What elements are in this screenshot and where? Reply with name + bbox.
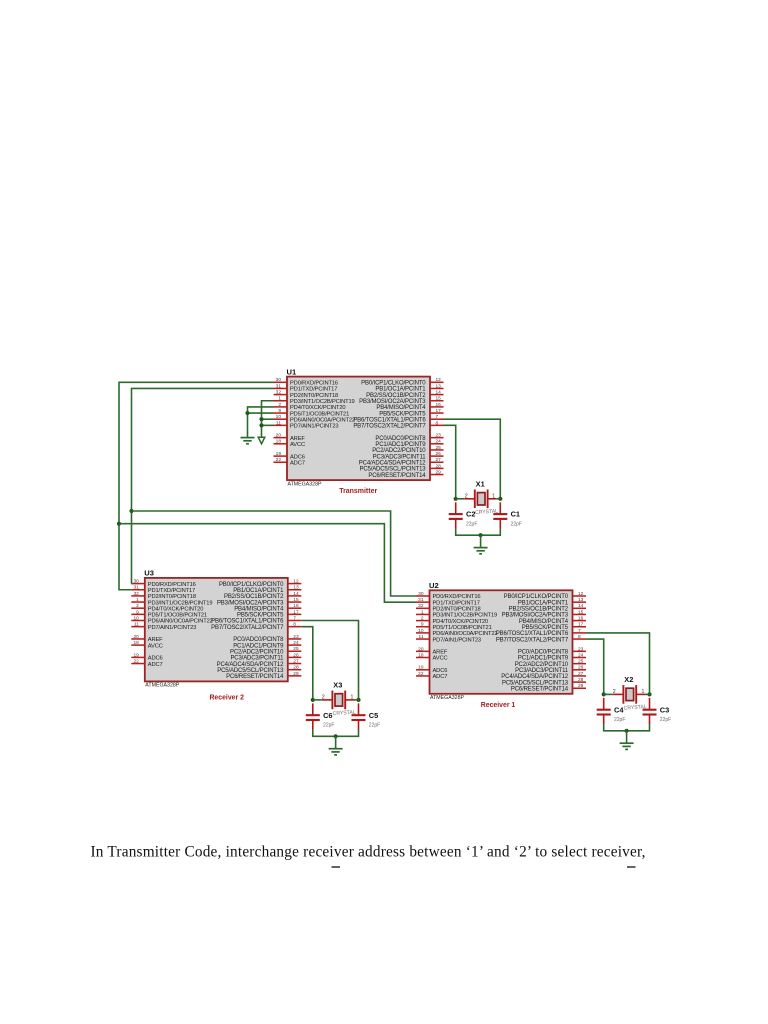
U1 pin 17 (PB5/SCK/PCINT5) (379, 408, 443, 417)
U3 pin 18 (AVCC) (131, 640, 162, 649)
svg-text:PB3/MOSI/OC2A/PCINT3: PB3/MOSI/OC2A/PCINT3 (502, 613, 569, 619)
svg-text:C5: C5 (369, 711, 378, 720)
svg-text:29: 29 (436, 469, 442, 475)
svg-text:7: 7 (436, 414, 439, 420)
svg-text:PB4/MISO/PCINT4: PB4/MISO/PCINT4 (376, 405, 426, 411)
svg-text:18: 18 (276, 439, 282, 445)
svg-text:7: 7 (293, 615, 296, 621)
svg-text:15: 15 (578, 609, 584, 615)
svg-text:C4: C4 (614, 705, 624, 714)
svg-text:19: 19 (276, 451, 282, 457)
svg-text:AREF: AREF (433, 650, 448, 656)
junction at X2 ground rail center (625, 729, 629, 733)
svg-text:31: 31 (133, 585, 139, 591)
U3 pin 8 (PB7/TOSC2/XTAL2/PCINT7) (211, 622, 301, 631)
U1 pin 14 (PB2/SS/OC1B/PCINT2) (366, 390, 443, 399)
junction X2 pin2 / C4 (602, 692, 606, 696)
U1 pin 27 (PC4/ADC4/SDA/PCINT12) (359, 457, 444, 466)
U2 pin 13 (PB1/OC1A/PCINT1) (518, 597, 586, 606)
U3 value label "Receiver 2" (209, 693, 244, 702)
svg-text:20: 20 (133, 634, 139, 640)
svg-text:PD6/AIN0/OC0A/PCINT22: PD6/AIN0/OC0A/PCINT22 (148, 619, 213, 625)
svg-text:PC4/ADC4/SDA/PCINT12: PC4/ADC4/SDA/PCINT12 (359, 460, 427, 466)
X3 pin 2 number (322, 694, 325, 700)
svg-text:13: 13 (578, 597, 584, 603)
wire: X3 cluster ground rail (313, 730, 359, 737)
svg-text:ADC7: ADC7 (290, 460, 305, 466)
svg-text:C1: C1 (511, 510, 520, 519)
svg-text:PB4/MISO/PCINT4: PB4/MISO/PCINT4 (519, 619, 569, 625)
microcontroller U2 (ATMEGA328P) body (430, 590, 573, 694)
svg-text:25: 25 (578, 659, 584, 665)
svg-text:28: 28 (293, 665, 299, 671)
svg-text:C3: C3 (660, 705, 669, 714)
svg-text:1: 1 (641, 689, 644, 695)
U1 pin 8 (PB7/TOSC2/XTAL2/PCINT7) (353, 420, 443, 429)
svg-text:U2: U2 (429, 581, 439, 590)
U2 pin 32 (PD2/INT0/PCINT18) (416, 603, 481, 612)
U1 pin 23 (PC0/ADC0/PCINT8) (375, 433, 443, 442)
wire: U2 pin8 XTAL2 to X2 pin2 (586, 639, 604, 694)
ground symbol (below X1) (474, 548, 488, 554)
svg-text:PB3/MOSI/OC2A/PCINT3: PB3/MOSI/OC2A/PCINT3 (359, 399, 426, 405)
svg-text:23: 23 (578, 646, 584, 652)
U1 pin 26 (PC3/ADC3/PCINT11) (373, 451, 444, 460)
svg-text:U3: U3 (144, 569, 154, 578)
svg-text:PD5/T1/OC0B/PCINT21: PD5/T1/OC0B/PCINT21 (433, 625, 492, 631)
U2 pin 15 (PB3/MOSI/OC2A/PCINT3) (502, 609, 586, 618)
U2 pin 23 (PC0/ADC0/PCINT8) (518, 646, 586, 655)
svg-text:PB0/ICP1/CLKO/PCINT0: PB0/ICP1/CLKO/PCINT0 (504, 594, 569, 600)
svg-text:PC6/RESET/PCINT14: PC6/RESET/PCINT14 (511, 686, 569, 692)
svg-text:X2: X2 (624, 675, 633, 684)
junction X3 pin2 / C6 (311, 698, 315, 702)
svg-text:PB6/TOSC1/XTAL1/PCINT6: PB6/TOSC1/XTAL1/PCINT6 (211, 619, 284, 625)
junction X1 pin1 / C1 (498, 497, 502, 501)
microcontroller U3 (ATMEGA328P) body (145, 578, 288, 682)
svg-text:16: 16 (436, 402, 442, 408)
svg-text:22pF: 22pF (369, 722, 380, 728)
small dash mark 2 (627, 866, 636, 867)
svg-text:ATMEGA328P: ATMEGA328P (145, 683, 180, 689)
U1 pin 31 (PD1/TXD/PCINT17) (274, 383, 338, 392)
svg-text:PC2/ADC2/PCINT10: PC2/ADC2/PCINT10 (515, 662, 569, 668)
U2 pin 12 (PB0/ICP1/CLKO/PCINT0) (504, 591, 586, 600)
svg-text:ADC6: ADC6 (290, 454, 305, 460)
svg-text:16: 16 (293, 603, 299, 609)
svg-text:PB5/SCK/PCINT5: PB5/SCK/PCINT5 (379, 411, 426, 417)
svg-text:14: 14 (578, 603, 584, 609)
svg-text:30: 30 (276, 377, 282, 383)
wire segment: U1 pin9 PD5 to vertical (248, 412, 274, 414)
svg-text:PB0/ICP1/CLKO/PCINT0: PB0/ICP1/CLKO/PCINT0 (361, 381, 426, 387)
svg-text:26: 26 (578, 665, 584, 671)
U2 pin 20 (AREF) (416, 646, 448, 655)
U2 pin 11 (PD7/AIN1/PCINT23) (416, 634, 481, 643)
svg-text:PC3/ADC3/PCINT11: PC3/ADC3/PCINT11 (230, 656, 284, 662)
U1 pin 10 (PD6/AIN0/OC0A/PCINT22) (274, 414, 355, 423)
junction X1 pin2 / C2 (454, 497, 458, 501)
svg-text:25: 25 (293, 646, 299, 652)
svg-text:1: 1 (350, 694, 353, 700)
svg-text:Receiver 2: Receiver 2 (209, 693, 244, 702)
X2 reference label (624, 675, 633, 684)
U3 pin 24 (PC1/ADC1/PCINT9) (233, 640, 301, 649)
U3 part name label ATMEGA328P (145, 683, 180, 689)
svg-text:15: 15 (436, 396, 442, 402)
U3 pin 23 (PC0/ADC0/PCINT8) (233, 634, 301, 643)
U3 reference designator label (144, 569, 154, 578)
wire: U2 pin7 XTAL1 to X2 pin1 (586, 633, 650, 695)
svg-text:20: 20 (418, 646, 424, 652)
svg-text:8: 8 (436, 420, 439, 426)
U3 pin 22 (ADC7) (131, 658, 162, 667)
svg-text:18: 18 (418, 652, 424, 658)
svg-text:29: 29 (578, 683, 584, 689)
junction on RXD1 net (branch to U2 TXD) (117, 522, 121, 526)
svg-text:X1: X1 (476, 480, 485, 489)
svg-text:1: 1 (136, 597, 139, 603)
U2 pin 26 (PC3/ADC3/PCINT11) (515, 665, 586, 674)
U1 pin 9 (PD5/T1/OC0B/PCINT21) (274, 408, 350, 417)
svg-text:AREF: AREF (148, 637, 163, 643)
U1 pin 7 (PB6/TOSC1/XTAL1/PCINT6) (353, 414, 443, 423)
svg-text:PD3/INT1/OC2B/PCINT19: PD3/INT1/OC2B/PCINT19 (148, 600, 213, 606)
U3 pin 2 (PD4/T0/XCK/PCINT20) (131, 603, 203, 612)
svg-text:22: 22 (133, 658, 139, 664)
U2 pin 14 (PB2/SS/OC1B/PCINT2) (509, 603, 586, 612)
wire segment: TXD1 branch to U2 pin30 RXD (132, 511, 417, 596)
svg-text:PB7/TOSC2/XTAL2/PCINT7: PB7/TOSC2/XTAL2/PCINT7 (496, 637, 569, 643)
svg-text:27: 27 (293, 658, 299, 664)
U3 pin 16 (PB4/MISO/PCINT4) (234, 603, 301, 612)
svg-text:PC0/ADC0/PCINT8: PC0/ADC0/PCINT8 (375, 436, 426, 442)
microcontroller U1 (ATMEGA328P) body (287, 377, 430, 481)
svg-text:22pF: 22pF (614, 717, 625, 723)
svg-text:10: 10 (418, 628, 424, 634)
svg-text:C6: C6 (323, 711, 332, 720)
svg-text:13: 13 (293, 585, 299, 591)
wire: U1 pin8 XTAL2 to X1 pin2 (444, 425, 456, 498)
U2 pin 17 (PB5/SCK/PCINT5) (522, 622, 586, 631)
U2 pin 25 (PC2/ADC2/PCINT10) (515, 659, 586, 668)
svg-text:17: 17 (578, 622, 584, 628)
U1 pin 29 (PC6/RESET/PCINT14) (368, 469, 443, 478)
capacitor C1 22pF (493, 502, 522, 529)
U3 pin 30 (PD0/RXD/PCINT16) (131, 579, 195, 588)
svg-text:PC2/ADC2/PCINT10: PC2/ADC2/PCINT10 (230, 649, 284, 655)
U2 pin 19 (ADC6) (416, 665, 447, 674)
X3 value label CRYSTAL (333, 710, 356, 718)
svg-text:PB2/SS/OC1B/PCINT2: PB2/SS/OC1B/PCINT2 (509, 607, 569, 613)
svg-text:22pF: 22pF (323, 722, 334, 728)
svg-text:27: 27 (578, 671, 584, 677)
junction at X1 ground rail center (479, 533, 483, 537)
svg-text:PD5/T1/OC0B/PCINT21: PD5/T1/OC0B/PCINT21 (148, 613, 207, 619)
U3 pin 15 (PB3/MOSI/OC2A/PCINT3) (217, 597, 301, 606)
wire segment: RXD1 branch to U2 pin31 TXD (119, 524, 416, 602)
svg-text:PD1/TXD/PCINT17: PD1/TXD/PCINT17 (148, 588, 195, 594)
svg-text:ADC7: ADC7 (433, 674, 448, 680)
capacitor C4 22pF (597, 698, 626, 725)
svg-text:8: 8 (578, 634, 581, 640)
wire net RXD1: U1 pin30 PD0/RXD to U3 pin31 TXD (119, 382, 274, 589)
crystal X1 (456, 490, 501, 509)
svg-text:ATMEGA328P: ATMEGA328P (288, 481, 323, 487)
U3 pin 28 (PC5/ADC5/SCL/PCINT13) (217, 665, 301, 674)
U2 pin 1 (PD3/INT1/OC2B/PCINT19) (416, 609, 497, 618)
U1 pin 19 (ADC6) (274, 451, 305, 460)
crystal X3 (313, 691, 359, 710)
capacitor C3 22pF (643, 698, 672, 725)
U3 pin 17 (PB5/SCK/PCINT5) (237, 609, 301, 618)
svg-text:PB2/SS/OC1B/PCINT2: PB2/SS/OC1B/PCINT2 (366, 393, 426, 399)
svg-text:11: 11 (419, 634, 424, 640)
svg-text:15: 15 (293, 597, 299, 603)
svg-text:14: 14 (436, 390, 442, 396)
svg-text:30: 30 (133, 579, 139, 585)
svg-text:PD2/INT0/PCINT18: PD2/INT0/PCINT18 (290, 393, 338, 399)
svg-text:PB5/SCK/PCINT5: PB5/SCK/PCINT5 (237, 613, 284, 619)
U2 pin 18 (AVCC) (416, 652, 447, 661)
svg-text:9: 9 (278, 408, 281, 414)
wire: U3 pin8 XTAL2 to X3 pin2 (301, 627, 313, 700)
U3 pin 9 (PD5/T1/OC0B/PCINT21) (131, 609, 207, 618)
U1 pin 11 (PD7/AIN1/PCINT23) (274, 420, 339, 429)
U3 pin 32 (PD2/INT0/PCINT18) (131, 591, 196, 600)
svg-text:28: 28 (436, 463, 442, 469)
svg-text:PD0/RXD/PCINT16: PD0/RXD/PCINT16 (148, 582, 196, 588)
svg-text:ADC7: ADC7 (148, 662, 163, 668)
U1 part name label ATMEGA328P (288, 481, 323, 487)
wire: X2 cluster ground rail (604, 724, 650, 731)
svg-text:29: 29 (293, 671, 299, 677)
U2 pin 16 (PB4/MISO/PCINT4) (519, 616, 586, 625)
svg-text:12: 12 (293, 579, 299, 585)
svg-text:31: 31 (276, 383, 282, 389)
U2 pin 9 (PD5/T1/OC0B/PCINT21) (416, 622, 492, 631)
U3 pin 26 (PC3/ADC3/PCINT11) (230, 652, 301, 661)
svg-text:2: 2 (465, 493, 468, 499)
U2 pin 24 (PC1/ADC1/PCINT9) (518, 652, 586, 661)
svg-text:PD4/T0/XCK/PCINT20: PD4/T0/XCK/PCINT20 (290, 405, 345, 411)
svg-text:PD6/AIN0/OC0A/PCINT22: PD6/AIN0/OC0A/PCINT22 (433, 631, 498, 637)
svg-text:PB4/MISO/PCINT4: PB4/MISO/PCINT4 (234, 606, 284, 612)
U1 pin 2 (PD4/T0/XCK/PCINT20) (274, 402, 346, 411)
svg-text:ADC6: ADC6 (433, 668, 448, 674)
junction at X3 ground rail center (334, 734, 338, 738)
junction PD3/PD6 (259, 417, 263, 421)
U3 pin 10 (PD6/AIN0/OC0A/PCINT22) (131, 615, 212, 624)
svg-text:26: 26 (293, 652, 299, 658)
svg-text:PD1/TXD/PCINT17: PD1/TXD/PCINT17 (433, 600, 480, 606)
svg-text:PD3/INT1/OC2B/PCINT19: PD3/INT1/OC2B/PCINT19 (433, 613, 498, 619)
capacitor C6 22pF (306, 703, 335, 730)
crystal X2 (604, 685, 650, 704)
svg-text:17: 17 (293, 609, 299, 615)
U1 pin 28 (PC5/ADC5/SCL/PCINT13) (359, 463, 443, 472)
svg-text:PB1/OC1A/PCINT1: PB1/OC1A/PCINT1 (518, 600, 569, 606)
svg-text:24: 24 (293, 640, 299, 646)
svg-text:PC1/ADC1/PCINT9: PC1/ADC1/PCINT9 (375, 442, 426, 448)
svg-text:1: 1 (278, 396, 281, 402)
X1 value label CRYSTAL (475, 509, 498, 517)
svg-text:10: 10 (276, 414, 282, 420)
U1 pin 24 (PC1/ADC1/PCINT9) (375, 439, 443, 448)
small dash mark 1 (332, 866, 341, 867)
svg-text:AVCC: AVCC (290, 442, 305, 448)
svg-text:PB6/TOSC1/XTAL1/PCINT6: PB6/TOSC1/XTAL1/PCINT6 (496, 631, 569, 637)
U2 pin 8 (PB7/TOSC2/XTAL2/PCINT7) (496, 634, 586, 643)
U3 pin 7 (PB6/TOSC1/XTAL1/PCINT6) (211, 615, 301, 624)
svg-text:2: 2 (136, 603, 139, 609)
svg-text:2: 2 (421, 616, 424, 622)
svg-text:PB7/TOSC2/XTAL2/PCINT7: PB7/TOSC2/XTAL2/PCINT7 (211, 625, 284, 631)
svg-text:11: 11 (276, 420, 281, 426)
svg-text:PD7/AIN1/PCINT23: PD7/AIN1/PCINT23 (433, 637, 481, 643)
svg-text:32: 32 (276, 390, 282, 396)
svg-text:9: 9 (421, 622, 424, 628)
svg-text:PD7/AIN1/PCINT23: PD7/AIN1/PCINT23 (290, 424, 338, 430)
X1 pin 2 number (465, 493, 468, 499)
svg-text:PC4/ADC4/SDA/PCINT12: PC4/ADC4/SDA/PCINT12 (217, 662, 285, 668)
U1 pin 18 (AVCC) (274, 439, 305, 448)
X1 pin 1 number (492, 493, 495, 499)
svg-text:Transmitter: Transmitter (339, 486, 377, 495)
junction X3 pin1 / C5 (356, 698, 360, 702)
caption text line (91, 844, 646, 861)
ground symbol (U1 PD4/PD5 net) (241, 438, 255, 444)
U1 pin 25 (PC2/ADC2/PCINT10) (372, 445, 443, 454)
wire net TXD1: U1 pin31 PD1/TXD to U3 pin30 RXD (131, 388, 273, 583)
wire: rail to ground symbol 1 (480, 535, 482, 547)
svg-text:23: 23 (293, 634, 299, 640)
capacitor C2 22pF (449, 502, 478, 529)
svg-text:19: 19 (133, 652, 139, 658)
svg-text:27: 27 (436, 457, 442, 463)
svg-text:PC3/ADC3/PCINT11: PC3/ADC3/PCINT11 (515, 668, 569, 674)
svg-text:PC6/RESET/PCINT14: PC6/RESET/PCINT14 (368, 473, 426, 479)
svg-text:PC5/ADC5/SCL/PCINT13: PC5/ADC5/SCL/PCINT13 (502, 680, 569, 686)
U1 pin 1 (PD3/INT1/OC2B/PCINT19) (274, 396, 355, 405)
svg-text:PB6/TOSC1/XTAL1/PCINT6: PB6/TOSC1/XTAL1/PCINT6 (353, 417, 426, 423)
svg-text:9: 9 (136, 609, 139, 615)
svg-text:30: 30 (418, 591, 424, 597)
svg-text:ATMEGA328P: ATMEGA328P (430, 695, 465, 701)
ground arrow terminal (U1 PD3/PD6/PD7 net) (258, 437, 265, 444)
svg-text:22pF: 22pF (511, 521, 522, 527)
wire: U1 pin1 PD3 down to ground arrow (262, 401, 274, 440)
svg-text:PD5/T1/OC0B/PCINT21: PD5/T1/OC0B/PCINT21 (290, 411, 349, 417)
svg-text:28: 28 (578, 677, 584, 683)
svg-text:22: 22 (276, 457, 282, 463)
svg-text:8: 8 (293, 622, 296, 628)
svg-text:22pF: 22pF (466, 521, 477, 527)
capacitor C5 22pF (352, 703, 381, 730)
svg-text:1: 1 (421, 609, 424, 615)
U2 part name label ATMEGA328P (430, 695, 465, 701)
wire: U3 pin7 XTAL1 to X3 pin1 (301, 621, 358, 700)
X2 pin 1 number (641, 689, 644, 695)
U1 pin 15 (PB3/MOSI/OC2A/PCINT3) (359, 396, 443, 405)
svg-text:PD2/INT0/PCINT18: PD2/INT0/PCINT18 (433, 607, 481, 613)
svg-text:Receiver 1: Receiver 1 (481, 700, 516, 709)
svg-text:2: 2 (613, 689, 616, 695)
U2 pin 31 (PD1/TXD/PCINT17) (416, 597, 480, 606)
wire: X1 cluster ground rail (456, 529, 501, 536)
svg-text:18: 18 (133, 640, 139, 646)
svg-text:10: 10 (133, 615, 139, 621)
svg-text:22pF: 22pF (660, 717, 671, 723)
svg-text:PC4/ADC4/SDA/PCINT12: PC4/ADC4/SDA/PCINT12 (501, 674, 569, 680)
junction on TXD1 net (branch to U2 RXD) (129, 509, 133, 513)
U2 pin 22 (ADC7) (416, 671, 447, 680)
U2 pin 7 (PB6/TOSC1/XTAL1/PCINT6) (496, 628, 586, 637)
U3 pin 25 (PC2/ADC2/PCINT10) (230, 646, 301, 655)
svg-text:20: 20 (276, 433, 282, 439)
U1 reference designator label (287, 367, 297, 376)
U3 pin 31 (PD1/TXD/PCINT17) (131, 585, 195, 594)
ground symbol (below X2) (620, 743, 634, 749)
svg-text:7: 7 (578, 628, 581, 634)
svg-text:23: 23 (436, 433, 442, 439)
svg-text:PC3/ADC3/PCINT11: PC3/ADC3/PCINT11 (373, 454, 427, 460)
svg-text:PD7/AIN1/PCINT23: PD7/AIN1/PCINT23 (148, 625, 196, 631)
wire: rail to ground symbol 2 (626, 731, 628, 743)
svg-text:PC1/ADC1/PCINT9: PC1/ADC1/PCINT9 (233, 643, 284, 649)
svg-text:19: 19 (418, 665, 424, 671)
svg-text:PC0/ADC0/PCINT8: PC0/ADC0/PCINT8 (518, 650, 569, 656)
svg-text:11: 11 (134, 622, 139, 628)
svg-text:PB2/SS/OC1B/PCINT2: PB2/SS/OC1B/PCINT2 (224, 594, 284, 600)
U2 value label "Receiver 1" (481, 700, 516, 709)
junction X2 pin1 / C3 (647, 692, 651, 696)
svg-text:PD2/INT0/PCINT18: PD2/INT0/PCINT18 (148, 594, 196, 600)
U3 pin 19 (ADC6) (131, 652, 162, 661)
wire: U1 pin2 PD4 down to ground (248, 407, 274, 438)
svg-text:PC5/ADC5/SCL/PCINT13: PC5/ADC5/SCL/PCINT13 (217, 668, 284, 674)
svg-text:PC1/ADC1/PCINT9: PC1/ADC1/PCINT9 (518, 656, 569, 662)
svg-text:C2: C2 (466, 510, 475, 519)
svg-text:PC6/RESET/PCINT14: PC6/RESET/PCINT14 (226, 674, 284, 680)
wire: U1 pin7 XTAL1 to X1 pin1 (444, 419, 501, 499)
svg-text:AVCC: AVCC (148, 643, 163, 649)
junction PD4/PD5 (245, 411, 249, 415)
U3 pin 14 (PB2/SS/OC1B/PCINT2) (224, 591, 301, 600)
U3 pin 13 (PB1/OC1A/PCINT1) (233, 585, 301, 594)
svg-text:32: 32 (418, 603, 424, 609)
svg-text:22: 22 (418, 671, 424, 677)
svg-text:In Transmitter Code, interchan: In Transmitter Code, interchange receive… (91, 844, 646, 861)
U1 pin 20 (AREF) (274, 433, 306, 442)
svg-text:12: 12 (578, 591, 584, 597)
svg-text:16: 16 (578, 616, 584, 622)
U1 pin 16 (PB4/MISO/PCINT4) (376, 402, 443, 411)
U1 value label "Transmitter" (339, 486, 377, 495)
svg-text:24: 24 (578, 652, 584, 658)
U3 pin 27 (PC4/ADC4/SDA/PCINT12) (217, 658, 302, 667)
svg-text:PB1/OC1A/PCINT1: PB1/OC1A/PCINT1 (375, 387, 426, 393)
svg-text:AREF: AREF (290, 436, 305, 442)
svg-text:X3: X3 (333, 681, 342, 690)
junction PD3/PD7 (259, 423, 263, 427)
svg-text:25: 25 (436, 445, 442, 451)
svg-text:13: 13 (436, 383, 442, 389)
svg-text:31: 31 (418, 597, 424, 603)
svg-text:2: 2 (322, 694, 325, 700)
svg-text:PD0/RXD/PCINT16: PD0/RXD/PCINT16 (290, 381, 338, 387)
svg-text:PD4/T0/XCK/PCINT20: PD4/T0/XCK/PCINT20 (148, 606, 203, 612)
